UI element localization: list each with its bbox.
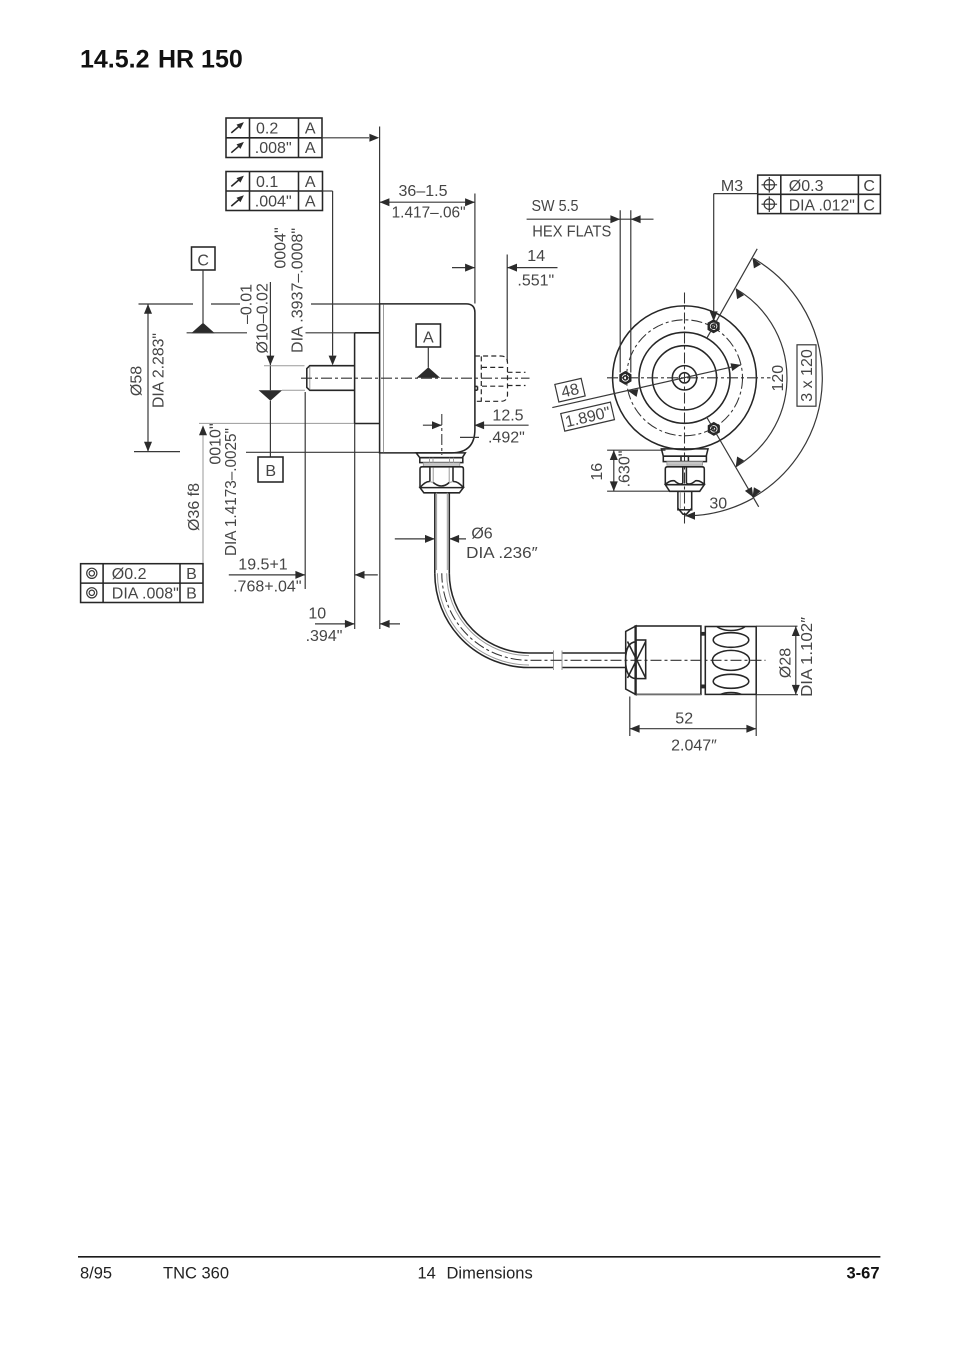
svg-text:19.5+1: 19.5+1 bbox=[238, 557, 287, 574]
dimension 12.5 / .492" bbox=[441, 414, 443, 455]
svg-text:3 x 120: 3 x 120 bbox=[799, 349, 816, 402]
svg-text:DIA .236″: DIA .236″ bbox=[466, 545, 538, 562]
svg-text:.630": .630" bbox=[617, 451, 634, 488]
svg-text:1.417–.06": 1.417–.06" bbox=[392, 205, 466, 222]
screw M3 left bbox=[620, 372, 631, 384]
svg-text:A: A bbox=[305, 140, 316, 157]
svg-text:120: 120 bbox=[770, 365, 787, 392]
leader from frame 0.1 down to shaft bbox=[323, 190, 333, 192]
svg-text:Ø0.3: Ø0.3 bbox=[789, 178, 824, 195]
svg-text:DIA 1.4173–.0025": DIA 1.4173–.0025" bbox=[223, 428, 240, 556]
boxed label 48 bbox=[555, 378, 585, 402]
svg-text:30: 30 bbox=[709, 496, 727, 513]
arc dimension 30 bbox=[685, 498, 753, 516]
svg-text:Ø10–0.02: Ø10–0.02 bbox=[255, 283, 272, 353]
datum C box and triangle bbox=[192, 247, 216, 270]
dimension 19.5+1 / .768+.04" bbox=[304, 392, 306, 589]
svg-text:14.5.2: 14.5.2 bbox=[80, 46, 150, 74]
feature control frame runout 0.2/A bbox=[226, 118, 322, 158]
svg-text:C: C bbox=[863, 178, 875, 195]
svg-text:.008": .008" bbox=[255, 140, 292, 157]
svg-text:14: 14 bbox=[527, 248, 545, 265]
screw M3 bottom bbox=[709, 423, 720, 435]
boxed label 1.890" bbox=[561, 402, 615, 432]
feature control frame concentricity Ø0.2/B bbox=[81, 564, 203, 603]
svg-text:HR 150: HR 150 bbox=[158, 46, 243, 74]
dimension SW 5.5 HEX FLATS bbox=[619, 210, 621, 372]
svg-text:A: A bbox=[305, 121, 316, 138]
arc dimension 120 bbox=[736, 289, 787, 467]
svg-text:C: C bbox=[863, 198, 875, 215]
dimension 10 / .394" bbox=[315, 623, 355, 625]
svg-text:14: 14 bbox=[418, 1265, 436, 1283]
front view housing circles bbox=[613, 306, 757, 450]
svg-text:Ø28: Ø28 bbox=[778, 648, 795, 678]
svg-text:DIA .3937–.0008": DIA .3937–.0008" bbox=[290, 228, 307, 353]
svg-text:0.2: 0.2 bbox=[256, 121, 278, 138]
svg-text:2.047″: 2.047″ bbox=[671, 738, 717, 755]
dimension Ø10-0.02/-0.01 leader bbox=[269, 282, 271, 390]
screw M3 top-right bbox=[708, 320, 719, 332]
svg-text:Dimensions: Dimensions bbox=[447, 1265, 533, 1283]
side view boss Ø36 bbox=[354, 333, 356, 424]
dimension 16 / .630" bbox=[607, 449, 665, 451]
svg-text:–0.01: –0.01 bbox=[239, 284, 256, 324]
dimension Ø6 / DIA .236″ bbox=[395, 538, 435, 540]
cable Ø6 with 90° bend bbox=[434, 493, 436, 574]
svg-text:0010": 0010" bbox=[208, 423, 225, 464]
front view vertical centerline bbox=[684, 293, 686, 525]
svg-text:8/95: 8/95 bbox=[80, 1265, 112, 1283]
svg-text:3-67: 3-67 bbox=[846, 1264, 879, 1282]
footer rule bbox=[78, 1256, 880, 1258]
svg-text:B: B bbox=[186, 566, 197, 583]
dimension Ø36 f8 / DIA 1.4173-.0025" bbox=[187, 332, 247, 334]
arc dimension 3 x 120 bbox=[754, 258, 823, 497]
svg-text:10: 10 bbox=[308, 606, 326, 623]
feature control frame runout 0.1/A bbox=[226, 172, 323, 211]
leader from frame 0.2 to body face bbox=[322, 137, 369, 139]
side view body outline bbox=[380, 304, 475, 453]
boxed label 3 x 120 bbox=[797, 345, 816, 406]
svg-text:52: 52 bbox=[675, 710, 693, 727]
svg-text:B: B bbox=[186, 586, 197, 603]
connector body bbox=[626, 626, 636, 695]
svg-text:Ø36 f8: Ø36 f8 bbox=[186, 483, 203, 531]
svg-text:DIA .008": DIA .008" bbox=[112, 586, 179, 603]
dimension Ø48 bolt circle line bbox=[552, 365, 741, 408]
svg-text:SW 5.5: SW 5.5 bbox=[532, 198, 579, 215]
dimension 14 / .551" bbox=[506, 255, 508, 362]
feature control frame position Ø0.3/C bbox=[758, 175, 881, 214]
svg-text:Ø58: Ø58 bbox=[129, 366, 146, 396]
side view centerline (datum axis) bbox=[301, 377, 530, 379]
svg-text:0.1: 0.1 bbox=[256, 174, 278, 191]
svg-text:A: A bbox=[423, 329, 434, 346]
svg-text:.394": .394" bbox=[306, 628, 343, 645]
svg-text:M3: M3 bbox=[721, 178, 743, 195]
front view horizontal centerline bbox=[607, 377, 771, 379]
svg-text:A: A bbox=[305, 174, 316, 191]
svg-text:16: 16 bbox=[589, 463, 606, 481]
svg-text:.551": .551" bbox=[517, 272, 554, 289]
svg-text:.768+.04": .768+.04" bbox=[233, 579, 301, 596]
side view body corner tick bbox=[460, 436, 479, 438]
side view cable gland bbox=[416, 453, 465, 458]
datum A box and triangle bbox=[416, 324, 440, 347]
hidden hex knob (dashed) bbox=[475, 356, 508, 401]
side view shaft Ø10 bbox=[307, 366, 355, 391]
svg-text:DIA 2.283": DIA 2.283" bbox=[151, 333, 168, 408]
svg-text:DIA .012": DIA .012" bbox=[789, 198, 855, 215]
dimension 52 / 2.047″ bbox=[629, 697, 631, 737]
svg-text:Ø0.2: Ø0.2 bbox=[112, 566, 147, 583]
svg-text:A: A bbox=[305, 194, 316, 211]
svg-text:0004": 0004" bbox=[273, 227, 290, 268]
svg-text:HEX FLATS: HEX FLATS bbox=[532, 223, 611, 240]
svg-text:C: C bbox=[197, 252, 209, 269]
dimension Ø28 / DIA 1.102″ bbox=[756, 625, 797, 627]
datum B triangle and box bbox=[282, 389, 305, 391]
svg-text:TNC 360: TNC 360 bbox=[163, 1265, 229, 1283]
svg-text:36–1.5: 36–1.5 bbox=[399, 183, 448, 200]
svg-text:.492": .492" bbox=[488, 430, 525, 447]
radial line through bottom screw bbox=[707, 417, 759, 507]
dimension 36-1.5 / 1.417-.06" bbox=[379, 127, 381, 304]
svg-text:12.5: 12.5 bbox=[492, 408, 523, 425]
front view cable gland and tail bbox=[661, 449, 708, 456]
svg-text:B: B bbox=[265, 463, 276, 480]
radial line through top-right screw bbox=[707, 249, 758, 339]
svg-text:Ø6: Ø6 bbox=[471, 526, 492, 543]
svg-text:DIA 1.102″: DIA 1.102″ bbox=[799, 617, 816, 697]
dimension Ø58 / DIA 2.283" bbox=[139, 303, 194, 305]
svg-text:.004": .004" bbox=[255, 194, 292, 211]
